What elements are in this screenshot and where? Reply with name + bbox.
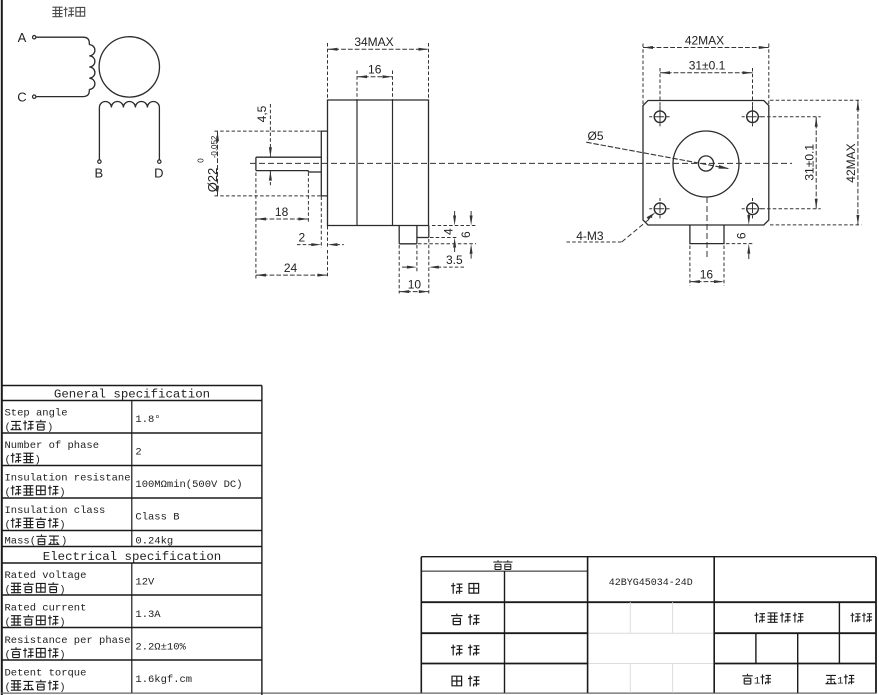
svg-text:42MAX: 42MAX	[685, 34, 724, 48]
svg-text:(: (	[5, 422, 11, 434]
side view: shaft end face	[255, 157, 257, 170]
svg-text:(: (	[5, 617, 11, 629]
svg-text:): )	[59, 487, 65, 499]
svg-text:): )	[59, 520, 65, 532]
front view: pilot boss circle	[673, 131, 739, 197]
svg-text:(: (	[5, 520, 11, 532]
svg-text:1.8°: 1.8°	[135, 414, 160, 426]
svg-text:12V: 12V	[135, 577, 155, 589]
dim 6 (side) extension line	[418, 243, 476, 245]
terminal C	[33, 95, 36, 98]
svg-text:): )	[59, 682, 65, 694]
dim 31±0.1 right	[815, 117, 817, 209]
terminal A	[33, 36, 36, 39]
side view: connector step bottom	[417, 237, 429, 239]
svg-text:C: C	[17, 90, 26, 105]
dim 10	[399, 291, 429, 293]
svg-text:24: 24	[284, 261, 298, 275]
front view: connector	[690, 225, 724, 244]
label 阶段标记	[755, 613, 765, 623]
dim Ø22 tolerance label	[197, 135, 221, 192]
label 日期	[452, 676, 462, 686]
dim 16 front	[690, 281, 724, 283]
coil A-C (phase 1)	[89, 45, 95, 90]
coil B-D (phase 2)	[99, 101, 159, 107]
dim 31±0.1 top	[660, 72, 753, 74]
dim 42MAX right extension lines	[770, 99, 862, 101]
label 审核	[451, 614, 462, 625]
wire coil to C	[36, 89, 89, 96]
front view: flange square with chamfers	[643, 101, 769, 226]
dim 18 extension lines	[255, 173, 257, 223]
dim 24 extension lines	[255, 224, 257, 279]
svg-text:): )	[59, 650, 65, 662]
svg-text:Electrical specification: Electrical specification	[43, 550, 221, 564]
dim 16 front extension lines	[689, 246, 691, 286]
dim 16 extension lines	[356, 71, 358, 100]
shaft centerline	[250, 162, 792, 164]
svg-text:(: (	[5, 487, 11, 499]
svg-text:16: 16	[368, 63, 382, 77]
svg-text:): )	[61, 536, 67, 548]
svg-text:6: 6	[459, 231, 473, 238]
dim 3.5	[402, 266, 408, 268]
dim 4 (step)	[454, 211, 456, 217]
mounting hole 4	[747, 203, 759, 215]
front view: vertical centerline lower	[706, 197, 708, 258]
svg-text:16: 16	[700, 268, 714, 282]
svg-text:Rated current: Rated current	[5, 603, 87, 615]
label 签字	[493, 560, 502, 569]
dim 6 (side)	[470, 211, 472, 217]
svg-text:Class B: Class B	[135, 512, 179, 524]
svg-text:Resistance per phase: Resistance per phase	[5, 635, 131, 647]
svg-text:1: 1	[754, 676, 760, 688]
svg-text:42MAX: 42MAX	[844, 143, 858, 182]
side view: body section line 2	[392, 100, 394, 226]
svg-text:3.5: 3.5	[446, 253, 463, 267]
wire A to coil	[36, 37, 89, 44]
svg-text:(: (	[5, 455, 11, 467]
dim 42MAX top	[643, 47, 769, 49]
dim 10 extension lines	[398, 245, 400, 294]
dim 6 front	[748, 213, 750, 217]
svg-text:2: 2	[298, 231, 305, 245]
svg-text:(: (	[5, 650, 11, 662]
svg-text:Mass(: Mass(	[5, 536, 37, 548]
side view: flat step	[307, 171, 309, 172]
dim 2 extension lines	[320, 197, 322, 249]
dim 42MAX top extension lines	[642, 44, 644, 106]
svg-text:Insulation resistane: Insulation resistane	[5, 473, 131, 485]
svg-text:42BYG45034-24D: 42BYG45034-24D	[609, 578, 693, 589]
dim 42MAX right	[857, 100, 859, 225]
dim 4 (step) extension lines	[432, 225, 476, 227]
svg-text:1: 1	[837, 676, 843, 688]
terminal B	[98, 160, 101, 163]
svg-text:): )	[59, 617, 65, 629]
dim 2	[297, 244, 312, 246]
side view: connector divider	[416, 226, 418, 244]
svg-text:(: (	[5, 682, 11, 694]
label 比例	[851, 613, 861, 622]
svg-text:100MΩmin(500V DC): 100MΩmin(500V DC)	[135, 479, 242, 491]
dim 16 (side)	[357, 76, 393, 78]
dim 34MAX	[328, 48, 429, 50]
dim 24	[256, 274, 328, 276]
dim 31±0.1 right extension lines	[761, 116, 820, 118]
side view: shaft bottom	[308, 171, 321, 173]
wire B up	[98, 108, 100, 160]
mounting hole 3	[654, 203, 666, 215]
mounting hole 1	[654, 111, 666, 123]
svg-text:General specification: General specification	[54, 388, 210, 402]
side view: connector left	[398, 226, 400, 244]
svg-text:10: 10	[408, 278, 422, 292]
dim Ø22 line	[217, 131, 219, 196]
svg-text:Step angle: Step angle	[5, 408, 68, 420]
svg-text:2: 2	[135, 447, 141, 459]
side view: shaft flat	[256, 170, 309, 172]
side view: body section line 1	[356, 100, 358, 226]
dim 4,5	[269, 104, 271, 157]
svg-text:0.24kg: 0.24kg	[135, 536, 173, 548]
label 共1张	[826, 675, 837, 683]
svg-text:4-M3: 4-M3	[576, 229, 604, 243]
svg-text:Ø5: Ø5	[587, 129, 603, 143]
svg-text:31±0.1: 31±0.1	[803, 144, 817, 181]
svg-text:4,5: 4,5	[255, 105, 269, 122]
svg-text:0: 0	[197, 158, 206, 163]
mounting hole 2	[747, 111, 759, 123]
title block outer and grid	[421, 556, 876, 558]
sheet left border	[1, 0, 3, 695]
side view: pilot boss	[321, 131, 327, 196]
svg-text:Rated voltage: Rated voltage	[5, 570, 87, 582]
sheet bottom border	[1, 692, 877, 694]
svg-text:Number of phase: Number of phase	[5, 440, 100, 452]
svg-text:(: (	[5, 585, 11, 597]
wire D down	[158, 108, 160, 160]
svg-text:): )	[35, 455, 41, 467]
svg-text:Insulation class: Insulation class	[5, 505, 106, 517]
dim 18	[256, 218, 309, 220]
dim 6 front extension line	[726, 243, 753, 245]
svg-text:6: 6	[735, 232, 749, 239]
label 第1张	[742, 674, 752, 684]
label 批准	[451, 645, 462, 656]
svg-text:31±0.1: 31±0.1	[689, 59, 726, 73]
side view: motor body outline	[328, 100, 429, 226]
title block gray guides	[629, 602, 631, 633]
svg-text:2.2Ω±10%: 2.2Ω±10%	[135, 642, 186, 654]
svg-text:18: 18	[275, 205, 289, 219]
motor body circle	[99, 37, 159, 97]
side view: shaft top	[256, 156, 321, 158]
terminal D	[158, 160, 161, 163]
dim 34MAX extension lines	[327, 43, 329, 100]
svg-text:Detent torque: Detent torque	[5, 668, 87, 680]
svg-text:D: D	[154, 166, 163, 181]
svg-text:B: B	[94, 166, 103, 181]
side view: connector bottom	[399, 243, 417, 245]
label 制图	[451, 583, 462, 594]
front view: shaft circle	[698, 156, 713, 171]
svg-text:): )	[47, 422, 53, 434]
svg-text:4: 4	[441, 228, 455, 235]
title block small cells	[755, 633, 757, 663]
dim Ø22 extension lines	[215, 130, 322, 132]
svg-text:1.3A: 1.3A	[135, 609, 161, 621]
wiring diagram title 接线图	[52, 7, 62, 16]
spec table grid	[2, 385, 262, 387]
svg-text:A: A	[18, 30, 27, 45]
svg-text:1.6kgf.cm: 1.6kgf.cm	[135, 674, 192, 686]
dim 31±0.1 top extension lines	[659, 68, 661, 126]
side view: connector step right	[428, 226, 430, 238]
svg-text:): )	[59, 585, 65, 597]
svg-text:34MAX: 34MAX	[354, 35, 393, 49]
